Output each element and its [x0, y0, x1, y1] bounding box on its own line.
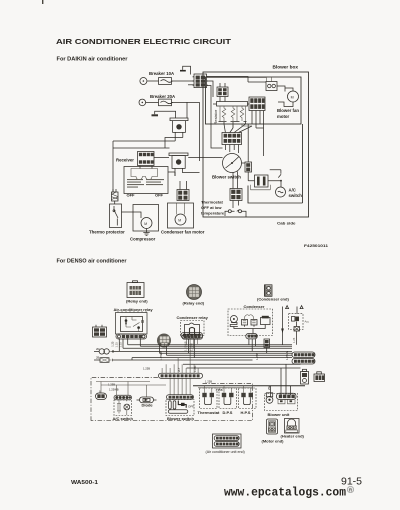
- diode: [137, 397, 157, 403]
- compressor ground: [143, 229, 149, 236]
- svg-text:(Relay end): (Relay end): [183, 301, 205, 306]
- svg-text:WA500-1: WA500-1: [71, 480, 98, 486]
- A/C switch connector: [114, 395, 132, 400]
- svg-text:1.25B: 1.25B: [255, 353, 259, 360]
- connector CN1: [188, 74, 208, 88]
- air-conditioner relay box: [116, 311, 148, 334]
- svg-text:OFF: OFF: [127, 193, 136, 198]
- svg-text:Cab side: Cab side: [277, 221, 296, 226]
- blower unit verticals: [271, 364, 291, 397]
- wires blower box top: [207, 78, 272, 82]
- svg-text:1.25B: 1.25B: [143, 367, 150, 371]
- dual pressure switch box: [124, 167, 168, 194]
- blower switch rotary: [223, 154, 242, 173]
- wires connector to blower switch: [225, 145, 238, 154]
- svg-text:Thermostat: Thermostat: [201, 200, 223, 205]
- wire vertical to relay: [186, 102, 188, 118]
- condenser end connector: [265, 285, 273, 297]
- svg-text:Breaker 20A: Breaker 20A: [150, 94, 175, 99]
- air-conditioner relay bottom strip: [116, 334, 147, 339]
- blower switch connector: [167, 395, 194, 400]
- svg-text:Diode: Diode: [142, 403, 154, 408]
- condenser bus wire: [234, 325, 265, 334]
- svg-text:www.epcatalogs.com: www.epcatalogs.com: [224, 486, 346, 500]
- small box right (dashed): [289, 314, 310, 345]
- ground top: [180, 70, 186, 72]
- svg-text:temperature: temperature: [201, 211, 225, 216]
- connector C2: [249, 97, 265, 111]
- condenser inner boxes: [242, 315, 258, 325]
- HPS switch: [239, 388, 257, 409]
- A/C switch box: [114, 400, 132, 416]
- relay end square connector: [127, 281, 144, 298]
- oval connector B: [96, 393, 107, 400]
- svg-text:1.25WB: 1.25WB: [159, 351, 163, 361]
- wires connector up to blower box: [224, 124, 252, 133]
- svg-text:H.P.S: H.P.S: [241, 410, 251, 415]
- wire breaker10A: [147, 80, 194, 82]
- svg-text:(Air conditioner unit end): (Air conditioner unit end): [206, 450, 245, 454]
- wire receiver top: [113, 147, 170, 149]
- strip verticals up: [162, 358, 198, 374]
- wires under resistors: [220, 107, 246, 122]
- svg-text:(Motor end): (Motor end): [262, 439, 285, 444]
- svg-text:Compressor: Compressor: [130, 237, 156, 242]
- motor switch small box: [266, 82, 277, 91]
- svg-text:For DAIKIN air conditioner: For DAIKIN air conditioner: [57, 57, 128, 63]
- ground mid: [152, 114, 159, 116]
- arrow wire down right: [297, 306, 303, 314]
- condenser oval strip connector: [246, 334, 257, 339]
- svg-text:(Heater end): (Heater end): [281, 434, 305, 439]
- wire R1 to left trunk: [113, 138, 183, 149]
- small connector right 1: [301, 369, 309, 384]
- motor end connector: [267, 419, 278, 434]
- pressure switch text block: [127, 179, 164, 188]
- svg-text:Blower unit: Blower unit: [268, 412, 290, 417]
- arrow wire down left: [281, 306, 289, 345]
- svg-text:Condenser: Condenser: [244, 304, 265, 309]
- svg-text:Blower switch: Blower switch: [212, 175, 241, 180]
- contact arm: [270, 170, 281, 178]
- page tick mark top: [42, 0, 43, 4]
- fuse 2: [94, 358, 112, 363]
- small connector left: [93, 325, 107, 337]
- DPS switch: [219, 388, 237, 409]
- svg-text:1.25B: 1.25B: [205, 380, 212, 384]
- pressure switch bus: [193, 385, 305, 387]
- svg-text:(Relay end): (Relay end): [126, 299, 148, 304]
- svg-text:1.25LW: 1.25LW: [285, 350, 289, 360]
- wires H2 up: [180, 181, 187, 190]
- wires box bottom crossing: [211, 104, 264, 156]
- wires condenser area down: [249, 339, 267, 353]
- svg-text:2R: 2R: [96, 347, 99, 351]
- svg-text:Air-conditioner relay: Air-conditioner relay: [114, 307, 154, 312]
- svg-text:1.25B: 1.25B: [108, 383, 115, 387]
- breaker 10A fuse: [159, 78, 172, 85]
- svg-text:1.25WB: 1.25WB: [109, 388, 119, 392]
- svg-text:Resistor: Resistor: [213, 109, 218, 124]
- A/C area box edges: [248, 124, 303, 203]
- hatched connector vert: [264, 339, 270, 348]
- condenser relay box: [181, 321, 205, 336]
- condenser relay feet wires: [189, 339, 195, 358]
- svg-text:(Condenser end): (Condenser end): [257, 297, 289, 302]
- hatched connector H2: [177, 190, 189, 201]
- svg-text:Condenser fan motor: Condenser fan motor: [161, 230, 205, 235]
- relay R1: [170, 118, 188, 141]
- small connector C3: [217, 87, 228, 97]
- svg-text:M: M: [291, 95, 294, 99]
- condenser relay bottom strip: [182, 335, 203, 340]
- connector H4: [245, 162, 252, 172]
- long strip connector: [159, 373, 203, 378]
- svg-text:D.P.S: D.P.S: [223, 410, 233, 415]
- svg-text:Breaker 10A: Breaker 10A: [149, 71, 174, 76]
- inner wires unit box: [96, 382, 166, 398]
- condenser fan motor box: [168, 203, 194, 228]
- thermo protector box: [110, 189, 122, 228]
- wire thermostat down: [242, 211, 247, 217]
- svg-text:motor: motor: [277, 114, 290, 119]
- resistor zigzags: [222, 106, 226, 121]
- breaker 10A terminal: [140, 78, 147, 85]
- svg-text:Thermo protector: Thermo protector: [89, 230, 125, 235]
- chain line unit box: [91, 378, 253, 421]
- compressor box: [133, 205, 159, 232]
- small connector right 2: [314, 372, 325, 382]
- cab side box: [203, 72, 309, 217]
- blower switch verticals: [170, 378, 190, 394]
- wire R2 legs: [168, 172, 200, 176]
- svg-text:1.25: 1.25: [111, 341, 115, 347]
- svg-text:AIR CONDITIONER ELECTRIC CIRCU: AIR CONDITIONER ELECTRIC CIRCUIT: [56, 37, 231, 46]
- heater end connector: [285, 419, 300, 434]
- svg-text:2B: 2B: [96, 355, 99, 359]
- svg-text:M: M: [178, 218, 181, 222]
- svg-text:switch: switch: [289, 193, 303, 198]
- svg-text:For DENSO air conditioner: For DENSO air conditioner: [57, 259, 127, 265]
- svg-text:1.25: 1.25: [115, 342, 119, 348]
- svg-text:Receiver: Receiver: [116, 158, 134, 163]
- wire long vertical: [199, 102, 201, 161]
- wire relay to A/C switch: [268, 181, 281, 187]
- wire labels tiny: [96, 341, 289, 392]
- relay R3: [251, 175, 271, 190]
- harness horizontals: [123, 345, 292, 349]
- svg-text:M: M: [144, 222, 147, 226]
- wire resistor bottoms bus: [224, 124, 252, 128]
- thermostat connector H3: [230, 189, 242, 201]
- wires from CN1 to inner: [207, 77, 249, 125]
- blower switch connector: [222, 133, 242, 145]
- fuse 1: [94, 349, 114, 354]
- blower fan motor: [288, 91, 299, 102]
- top strip connector: [181, 333, 203, 339]
- receiver connector: [138, 152, 155, 166]
- svg-text:Blower box: Blower box: [273, 65, 299, 70]
- wire into H4: [242, 124, 255, 181]
- A/C switch circle: [276, 187, 286, 197]
- svg-text:Acc: Acc: [305, 320, 310, 324]
- svg-text:1.25: 1.25: [292, 337, 296, 343]
- air conditioner unit end connector: [213, 434, 242, 448]
- breaker 20A terminal: [139, 99, 146, 106]
- harness verticals from relays: [119, 338, 140, 351]
- svg-text:Blower switch: Blower switch: [167, 416, 194, 421]
- wire left trunk: [112, 141, 114, 192]
- svg-text:A/C switch: A/C switch: [113, 416, 134, 421]
- svg-text:OFF: OFF: [188, 405, 194, 409]
- svg-text:2LY: 2LY: [177, 367, 181, 372]
- condenser dashed box: [228, 309, 273, 336]
- thermostat contact: [228, 210, 241, 213]
- svg-text:OFF at low: OFF at low: [201, 205, 222, 210]
- thermostat switch: [200, 388, 218, 409]
- wire thermo to compressor: [122, 212, 142, 218]
- svg-text:A/C: A/C: [289, 188, 296, 193]
- svg-text:1.25: 1.25: [118, 342, 122, 348]
- relay end round connector: [187, 285, 202, 300]
- svg-text:1.25L: 1.25L: [193, 365, 197, 372]
- svg-text:Thermostat: Thermostat: [198, 410, 220, 415]
- round connector small: [157, 334, 171, 348]
- wire rotary to H3: [233, 172, 238, 189]
- hatched connector H1: [112, 192, 119, 201]
- blower switch box: [166, 400, 194, 416]
- wire breaker20A: [146, 101, 200, 103]
- blower box: [206, 77, 302, 124]
- wire H3 to contact: [225, 201, 239, 217]
- svg-text:OFF: OFF: [155, 193, 164, 198]
- breaker 20A fuse: [159, 99, 172, 106]
- relay R2: [169, 153, 188, 176]
- wire receiver to switch area: [154, 157, 223, 159]
- wires C2 down: [252, 111, 264, 132]
- condenser coil box: [261, 316, 271, 325]
- double row connector right: [292, 352, 315, 364]
- svg-text:Condenser relay: Condenser relay: [177, 315, 209, 320]
- svg-text:F42501011: F42501011: [304, 243, 329, 248]
- resistor busbar: [217, 102, 248, 107]
- condenser motor: [230, 316, 238, 327]
- blower unit box: [265, 393, 298, 411]
- svg-text:Blower fan: Blower fan: [277, 108, 299, 113]
- wires C3: [220, 83, 225, 102]
